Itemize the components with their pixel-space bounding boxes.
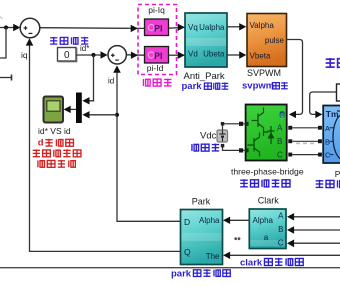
label svpwm控制 (blue) xyxy=(242,81,288,92)
svg-text:0: 0 xyxy=(64,50,70,61)
dashed subsystem box (current loop) xyxy=(138,5,177,75)
svg-text:id* VS id: id* VS id xyxy=(38,126,71,136)
label park逆变换 (blue) xyxy=(182,81,229,92)
label 永磁同步 (blue, cropped) xyxy=(316,180,340,188)
svg-text:PI: PI xyxy=(154,23,163,33)
wire: motor C into Clark C xyxy=(293,242,340,244)
node: junction on id feedback to mux xyxy=(115,113,119,117)
svg-text:park: park xyxy=(182,81,203,92)
bridge interior IGBT art xyxy=(248,108,275,157)
node: junction on iq reference wire xyxy=(4,25,8,29)
wire: bridge A to motor A xyxy=(288,126,292,130)
svg-text:Valpha: Valpha xyxy=(250,21,275,30)
svg-text:a: a xyxy=(264,233,269,242)
svg-text:C: C xyxy=(277,150,283,159)
annotation dots between Park and Clark xyxy=(234,237,237,240)
svg-text:B: B xyxy=(325,137,330,146)
battery ports xyxy=(221,122,225,126)
svg-text:Clark: Clark xyxy=(258,196,280,206)
sum junction S1 (iq loop) xyxy=(20,18,40,38)
label d轴比较 (red) xyxy=(38,138,74,149)
wire: battery - to bridge xyxy=(223,147,240,150)
wire: id feedback from Park D up into sum2 xyxy=(117,72,181,222)
wire: sum2 output to PI2 xyxy=(126,54,144,56)
wire: sum1 output to PI1 xyxy=(40,27,145,30)
svg-text:A: A xyxy=(325,124,330,133)
svg-text:d: d xyxy=(38,138,44,149)
wire: Ualpha to Valpha xyxy=(227,26,242,28)
wire: pulse to bridge gate xyxy=(287,40,303,115)
svg-text:Park: Park xyxy=(192,196,211,206)
svg-text:D: D xyxy=(184,217,190,227)
wire: full-width bottom line xyxy=(0,267,340,269)
PI controller 2 xyxy=(145,47,169,64)
svg-text:B: B xyxy=(277,137,282,146)
wire: branch from junction exiting left edge xyxy=(0,28,6,59)
label 负载 (blue) xyxy=(326,58,340,67)
mux xyxy=(76,93,82,124)
wire: Clark alpha to Park Alpha xyxy=(229,219,249,221)
svg-text:Vdc: Vdc xyxy=(200,131,217,142)
label 输出电流 (red) xyxy=(38,160,75,167)
svg-text:P: P xyxy=(335,169,340,179)
label 直流源 (blue) xyxy=(192,144,219,152)
faint annotation dashes xyxy=(296,143,314,145)
PI controller 1 xyxy=(145,19,169,36)
wire: constant to sum2 xyxy=(77,54,105,56)
label 电流环 (magenta) xyxy=(143,78,171,86)
svg-text:B: B xyxy=(278,225,283,234)
svg-text:id*: id* xyxy=(80,44,89,53)
wire: cropped stub at left edge y=77.5 xyxy=(0,77,12,79)
wire: iq feedback from Park Q up into sum1 xyxy=(30,45,181,252)
svg-text:C: C xyxy=(278,238,284,247)
wire: theta into Park The xyxy=(229,254,340,256)
wire: battery + to bridge xyxy=(224,123,239,125)
wire: PI2 to Anti_Park Vd xyxy=(169,54,185,56)
svg-text:pi-Iq: pi-Iq xyxy=(148,5,165,15)
wire: bridge C to motor C xyxy=(288,153,292,157)
wire: PI1 to Anti_Park Vq xyxy=(169,26,185,29)
node: junction on id* wire xyxy=(91,53,95,57)
label 参考电流和 (red) xyxy=(33,149,81,156)
Anti_Park block xyxy=(185,13,227,67)
label 参考电流 (blue) xyxy=(50,37,88,44)
constant block id* = 0 xyxy=(59,49,78,63)
svg-text:clark: clark xyxy=(240,257,263,268)
svg-text:Vq: Vq xyxy=(188,23,198,32)
label 三相逆变器 (blue) xyxy=(240,179,290,187)
wire: bridge B to motor B xyxy=(288,139,292,143)
svg-text:id: id xyxy=(108,77,114,86)
Clark block xyxy=(249,209,286,249)
PMSM motor block (cropped) xyxy=(323,106,340,164)
svg-text:A: A xyxy=(278,211,284,220)
wire: motor B into Clark B xyxy=(293,229,340,231)
wire: id* branch down to mux input 1 xyxy=(89,55,94,101)
wire: reference iq input into sum1 xyxy=(0,27,14,29)
label clark坐标变换 (blue) xyxy=(240,257,303,268)
decor faint crop mark top-left xyxy=(0,17,3,20)
svg-text:Ualpha: Ualpha xyxy=(199,23,225,32)
svg-text:Ubeta: Ubeta xyxy=(203,50,225,59)
svg-text:iq: iq xyxy=(21,50,28,60)
svg-text:g: g xyxy=(280,113,283,119)
svg-text:Vbeta: Vbeta xyxy=(250,52,271,61)
svg-text:PI: PI xyxy=(154,51,163,61)
gate port g xyxy=(280,111,285,118)
SVPWM block xyxy=(247,14,287,67)
sum junction S2 (id loop) xyxy=(108,46,126,64)
svg-text:park: park xyxy=(171,269,192,280)
wire: Ubeta to Vbeta xyxy=(227,54,242,56)
wire: motor A into Clark A xyxy=(293,216,340,218)
svg-text:Alpha: Alpha xyxy=(253,216,274,225)
svg-text:SVPWM: SVPWM xyxy=(247,68,281,78)
Vdc battery source xyxy=(217,130,228,142)
three-phase bridge block xyxy=(246,105,287,161)
svg-text:three-phase-bridge: three-phase-bridge xyxy=(231,166,304,176)
svg-text:Alpha: Alpha xyxy=(199,216,220,225)
svg-text:Q: Q xyxy=(184,247,191,257)
Park block xyxy=(181,210,223,265)
wire: mux output into scope xyxy=(70,108,76,110)
svg-text:pulse: pulse xyxy=(265,36,285,45)
load block (cropped at right edge) xyxy=(337,84,340,101)
svg-text:pi-Id: pi-Id xyxy=(147,63,164,73)
svg-text:The: The xyxy=(206,252,220,261)
wire: load to motor Tm xyxy=(310,92,337,114)
wire: branch to mux input 2 xyxy=(89,114,117,116)
svg-text:Vd: Vd xyxy=(188,50,198,59)
label park坐标变换 (blue) xyxy=(171,269,230,280)
svg-text:A: A xyxy=(277,124,283,133)
scope id* VS id xyxy=(44,97,64,123)
svg-text:svpwm: svpwm xyxy=(242,81,274,92)
